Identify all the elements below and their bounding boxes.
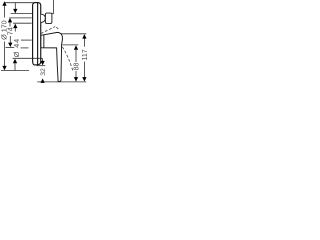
svg-text:74: 74	[6, 27, 15, 35]
svg-text:88: 88	[74, 63, 81, 71]
svg-text:117: 117	[82, 49, 89, 60]
svg-text:Ø 44: Ø 44	[12, 38, 21, 57]
svg-text:32: 32	[40, 68, 47, 76]
